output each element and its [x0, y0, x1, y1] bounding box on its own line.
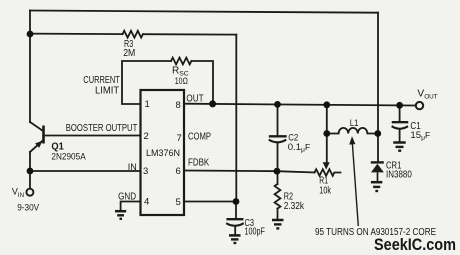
svg-text:IN3880: IN3880: [386, 169, 412, 180]
svg-text:CURRENT: CURRENT: [83, 75, 120, 86]
wire L1 left riser from OUT line: [326, 105, 328, 134]
op-amp regulator U1 LM376N body: [141, 90, 185, 215]
node junction dot RSC-OUT: [209, 100, 216, 107]
wire R1 wiper riser: [326, 134, 328, 163]
wire R2 branch upper: [277, 171, 279, 184]
svg-text:SeekIC.com: SeekIC.com: [374, 235, 456, 254]
wire R2 to ground: [277, 209, 279, 219]
node junction dot R3 tap: [27, 31, 34, 38]
capacitor C2: [270, 135, 286, 137]
node junction dot pin5-R3-C3: [233, 198, 240, 205]
svg-text:3: 3: [143, 166, 148, 177]
transistor Q1 emitter diagonal: [30, 140, 43, 152]
wire top bus from Q1 collector to switch node: [30, 11, 378, 13]
wire C1 branch upper: [399, 105, 401, 121]
svg-text:IN: IN: [128, 161, 137, 172]
resistor RSC: [171, 58, 191, 65]
node junction dot C2-OUT: [274, 101, 281, 108]
svg-text:GND: GND: [118, 191, 136, 202]
transistor Q1 base bar: [42, 126, 45, 144]
wire R3 row left: [30, 33, 123, 36]
svg-text:2.32k: 2.32k: [284, 201, 305, 212]
svg-text:LM376N: LM376N: [146, 148, 180, 158]
svg-text:15μF: 15μF: [410, 130, 430, 141]
wire OUT line (pin 8 to VOUT): [184, 104, 416, 106]
ground pin 4: [115, 211, 126, 219]
wire C2 branch upper: [277, 104, 279, 135]
diode CR1: [371, 161, 384, 181]
terminal VIN circle: [26, 189, 33, 196]
wire C3 to ground: [234, 227, 236, 234]
svg-text:0.1μF: 0.1μF: [288, 142, 311, 153]
resistor R2: [275, 184, 281, 209]
wire pin 4 GND stub: [121, 202, 141, 211]
capacitor C1: [393, 121, 407, 123]
node junction dot C1-OUT: [396, 102, 403, 109]
svg-text:FDBK: FDBK: [188, 158, 209, 169]
wire C1 to ground: [399, 130, 401, 141]
ground R2: [272, 220, 284, 228]
svg-text:L1: L1: [350, 118, 359, 128]
wire C2 branch lower: [277, 144, 279, 172]
wire pin 2 booster output: [45, 135, 141, 137]
svg-text:COMP: COMP: [188, 132, 211, 143]
wire current limit loop: pin1 stub, left riser, top run: [122, 61, 171, 104]
ground C3: [229, 235, 241, 243]
svg-text:2N2905A: 2N2905A: [51, 152, 86, 163]
transistor Q1 emitter arrowhead: [35, 138, 45, 147]
svg-text:4: 4: [144, 197, 149, 208]
svg-text:2: 2: [144, 131, 149, 142]
svg-text:2M: 2M: [123, 48, 135, 59]
transistor Q1 collector diagonal: [30, 122, 43, 131]
wire IN line: [30, 170, 141, 172]
svg-text:5: 5: [176, 197, 181, 208]
wire R3 drop to pin 5: [235, 35, 237, 202]
svg-text:6: 6: [176, 166, 181, 177]
resistor R1 (pot): [315, 169, 341, 176]
svg-text:7: 7: [177, 133, 182, 144]
svg-text:OUT: OUT: [186, 93, 203, 104]
callout arrow to L1: [352, 144, 358, 226]
wire C3 branch: [235, 202, 237, 219]
svg-text:9-30V: 9-30V: [17, 202, 39, 212]
wire FDBK line pin 6 to R1: [184, 171, 315, 173]
svg-text:1: 1: [145, 99, 150, 110]
ground C1: [393, 143, 405, 151]
svg-text:10Ω: 10Ω: [175, 76, 188, 86]
capacitor C3: [228, 218, 243, 220]
ground CR1: [371, 182, 382, 191]
svg-text:LIMIT: LIMIT: [95, 85, 119, 96]
node junction dot L1 right: [374, 130, 381, 137]
svg-text:8: 8: [176, 100, 181, 111]
wire R3 row right: [143, 33, 236, 35]
node junction dot FDBK: [274, 168, 281, 175]
node junction dot L1-OUT: [323, 101, 330, 108]
wire switch node drop (top bus to L1 right / CR1): [377, 13, 379, 162]
resistor R3: [123, 31, 143, 38]
terminal VOUT circle: [416, 102, 423, 109]
R1 wiper arrowhead: [323, 162, 330, 169]
inductor L1: [327, 128, 378, 134]
node junction dot L1 left: [323, 130, 330, 137]
wire VIN riser: [29, 152, 31, 188]
svg-text:10k: 10k: [319, 185, 331, 196]
wire pin 5 stub: [184, 201, 236, 203]
wire Q1 collector riser: [29, 11, 31, 123]
svg-text:100pF: 100pF: [245, 227, 265, 238]
node junction dot IN tap: [27, 168, 34, 175]
svg-text:BOOSTER OUTPUT: BOOSTER OUTPUT: [66, 123, 138, 134]
wire current limit loop right riser to OUT line: [192, 61, 213, 104]
